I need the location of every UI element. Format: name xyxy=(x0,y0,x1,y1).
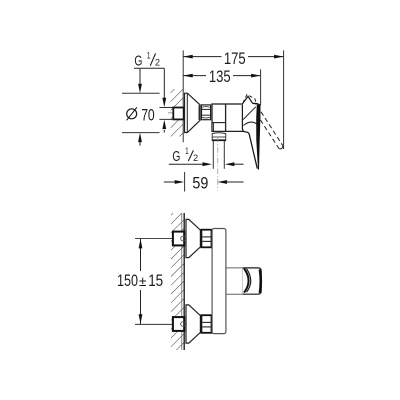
svg-text:±: ± xyxy=(139,274,146,289)
svg-text:135: 135 xyxy=(209,68,231,86)
svg-text:59: 59 xyxy=(192,174,208,192)
svg-text:175: 175 xyxy=(224,50,246,68)
svg-text:G: G xyxy=(172,149,180,165)
svg-text:1: 1 xyxy=(185,146,189,156)
svg-text:15: 15 xyxy=(148,272,163,290)
svg-text:2: 2 xyxy=(155,58,160,68)
svg-text:1: 1 xyxy=(147,51,151,61)
svg-text:2: 2 xyxy=(193,153,198,163)
svg-text:150: 150 xyxy=(117,272,138,290)
svg-text:70: 70 xyxy=(141,106,155,124)
svg-text:G: G xyxy=(134,54,142,70)
